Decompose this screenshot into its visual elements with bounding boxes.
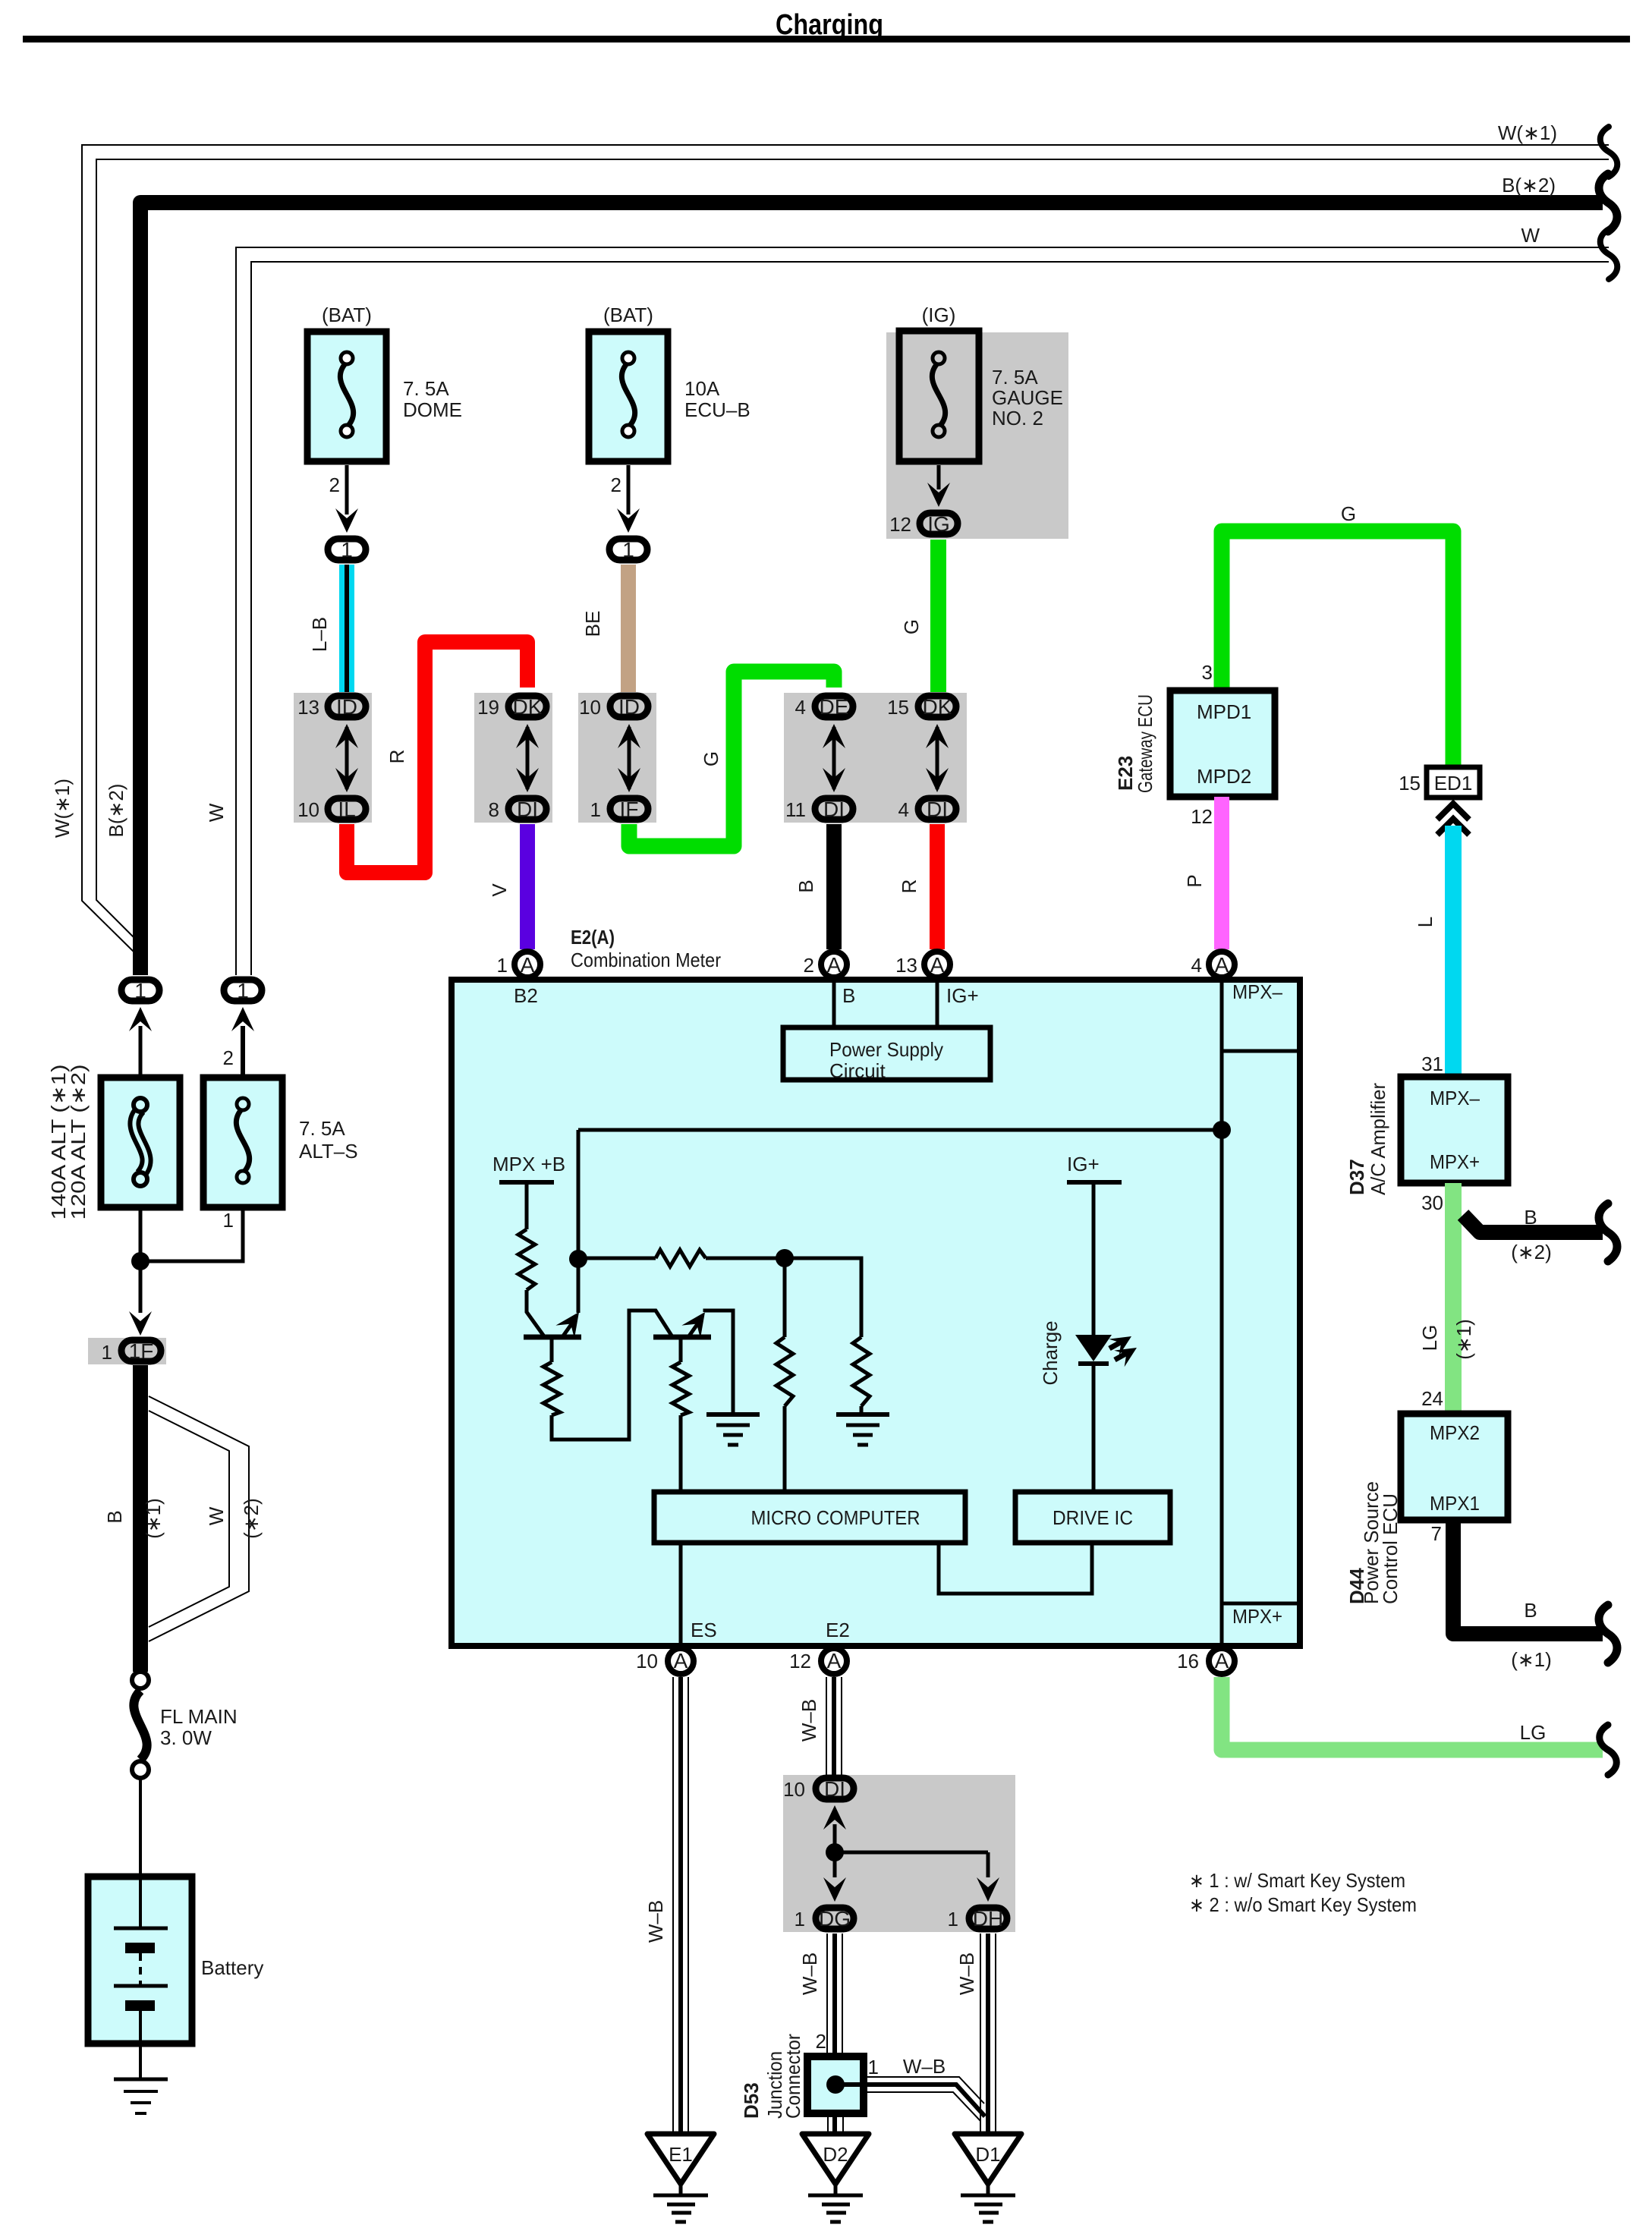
junction dot on MPX- bbox=[1213, 1121, 1231, 1139]
connector 1 (dome) bbox=[328, 539, 366, 560]
svg-text:LG: LG bbox=[1418, 1325, 1441, 1352]
svg-text:1: 1 bbox=[795, 1908, 805, 1930]
wire W-B D53 to D2 bbox=[827, 2113, 829, 2134]
svg-text:B(∗2): B(∗2) bbox=[1502, 174, 1556, 197]
wire W(*1) outline top bbox=[82, 145, 1609, 953]
svg-text:1: 1 bbox=[134, 979, 146, 1002]
svg-text:A: A bbox=[930, 953, 945, 977]
wire horizontal to MPX- bbox=[578, 1128, 1222, 1132]
svg-text:2: 2 bbox=[329, 474, 340, 496]
svg-text:ALT–S: ALT–S bbox=[299, 1140, 358, 1163]
svg-text:4: 4 bbox=[898, 798, 909, 821]
wire W-B DG to D53 bbox=[826, 1934, 828, 2056]
svg-text:1: 1 bbox=[497, 954, 508, 977]
wire MPX- bus vertical bbox=[1220, 980, 1224, 1646]
wire W-B ES to E1 bbox=[672, 1677, 674, 2134]
connector ED1 bbox=[1427, 767, 1480, 798]
svg-text:D2: D2 bbox=[823, 2143, 848, 2166]
svg-text:IF: IF bbox=[620, 798, 639, 821]
svg-text:D1: D1 bbox=[975, 2143, 1000, 2166]
svg-text:(∗1): (∗1) bbox=[1452, 1319, 1475, 1360]
wire W outline left bbox=[236, 247, 1609, 975]
title rule bbox=[23, 36, 1630, 42]
wire B to power supply bbox=[832, 977, 836, 1027]
wire ALT fuse down bbox=[139, 1207, 143, 1313]
svg-text:1F: 1F bbox=[129, 1339, 154, 1363]
wire connector to ALT-S fuse bbox=[241, 1026, 245, 1078]
connector DG (1) bbox=[816, 1908, 854, 1929]
gray block DE/DI DK/DI bbox=[784, 693, 967, 823]
wire IG+ to power supply bbox=[936, 977, 939, 1027]
ground D2 bbox=[802, 2134, 869, 2184]
connector 1F bbox=[121, 1340, 161, 1361]
svg-text:Gateway ECU: Gateway ECU bbox=[1134, 694, 1156, 793]
svg-text:∗ 2 : w/o Smart Key System: ∗ 2 : w/o Smart Key System bbox=[1189, 1893, 1417, 1916]
wire L cyan to D37 bbox=[1445, 826, 1462, 1077]
svg-text:DI: DI bbox=[823, 798, 845, 821]
svg-text:B: B bbox=[1524, 1599, 1537, 1622]
svg-text:4: 4 bbox=[1191, 954, 1202, 977]
transistor Q1 base lead down bbox=[550, 1339, 554, 1362]
wire DOME to connector bbox=[345, 465, 349, 514]
svg-text:ED1: ED1 bbox=[1434, 772, 1473, 795]
svg-text:12: 12 bbox=[889, 513, 911, 536]
transistor Q1 base bar bbox=[524, 1335, 581, 1340]
svg-text:DI: DI bbox=[517, 798, 538, 821]
wire L-B cyan with black stripe bbox=[339, 565, 354, 692]
svg-text:B: B bbox=[842, 984, 855, 1007]
battery internals bbox=[139, 1880, 142, 1928]
svg-text:1: 1 bbox=[102, 1341, 112, 1364]
wire DI to junction bbox=[833, 1824, 837, 1852]
connector DI (4) bbox=[918, 798, 956, 820]
battery box bbox=[88, 1877, 192, 2044]
svg-text:Circuit: Circuit bbox=[829, 1059, 886, 1082]
resistor R4 bbox=[853, 1337, 870, 1406]
fusible link element bbox=[134, 1109, 146, 1175]
fuse DOME 7.5A box bbox=[307, 332, 386, 461]
LED Charge bbox=[1075, 1335, 1112, 1361]
wire B(*2) stub to break bbox=[1463, 1215, 1603, 1232]
wire GAUGE to IG connector bbox=[937, 465, 941, 489]
rail IG+ bbox=[1067, 1180, 1122, 1185]
svg-text:ID: ID bbox=[336, 695, 357, 719]
junction dot Q1 emitter node bbox=[569, 1250, 587, 1268]
svg-text:DRIVE IC: DRIVE IC bbox=[1053, 1506, 1133, 1529]
svg-text:R: R bbox=[385, 750, 408, 764]
svg-text:GAUGE: GAUGE bbox=[992, 386, 1063, 409]
svg-text:120A ALT (∗2): 120A ALT (∗2) bbox=[67, 1065, 90, 1220]
svg-text:DK: DK bbox=[513, 695, 543, 719]
resistor R2 horizontal bbox=[578, 1257, 656, 1260]
wire W-B D53 to DH line bbox=[864, 2077, 984, 2104]
connector DK (19) bbox=[526, 727, 530, 789]
svg-text:L: L bbox=[1414, 917, 1436, 927]
svg-text:ES: ES bbox=[691, 1619, 717, 1641]
svg-text:DOME: DOME bbox=[403, 398, 462, 421]
svg-text:ID: ID bbox=[618, 695, 640, 719]
ECU E23 Gateway box bbox=[1170, 691, 1275, 797]
box DRIVE IC bbox=[1015, 1492, 1170, 1543]
terminal 4 A bbox=[1209, 952, 1235, 977]
svg-text:10: 10 bbox=[636, 1650, 658, 1672]
svg-text:1: 1 bbox=[948, 1908, 958, 1930]
svg-text:MPD1: MPD1 bbox=[1197, 700, 1251, 723]
svg-text:8: 8 bbox=[489, 798, 499, 821]
node W(*1) break squiggle bbox=[1600, 127, 1618, 177]
svg-text:DE: DE bbox=[820, 695, 849, 719]
connector 1 (ecu-b) bbox=[609, 539, 647, 560]
terminal 2 A bbox=[821, 952, 847, 977]
node B(*2) break squiggle bbox=[1599, 1204, 1617, 1261]
svg-text:Connector: Connector bbox=[782, 2034, 804, 2119]
svg-text:MPX2: MPX2 bbox=[1430, 1421, 1480, 1444]
node B(*1) break squiggle bbox=[1599, 1605, 1617, 1663]
svg-text:13: 13 bbox=[297, 696, 319, 719]
ground Q2 bbox=[706, 1412, 760, 1417]
svg-text:3: 3 bbox=[1202, 661, 1213, 684]
fuse DOME element bbox=[340, 362, 353, 427]
svg-text:Control ECU: Control ECU bbox=[1379, 1493, 1402, 1604]
connector IL (10) bbox=[328, 798, 366, 820]
svg-text:B: B bbox=[1524, 1206, 1537, 1229]
resistor R1 bbox=[518, 1229, 535, 1290]
svg-text:MICRO COMPUTER: MICRO COMPUTER bbox=[751, 1506, 920, 1529]
connector ID (13) bbox=[345, 727, 349, 789]
svg-text:(∗2): (∗2) bbox=[1511, 1241, 1552, 1263]
transistor Q1 collector lead bbox=[527, 1290, 544, 1336]
LED arrows bbox=[1109, 1341, 1123, 1348]
svg-text:IG: IG bbox=[927, 512, 950, 536]
svg-text:IL: IL bbox=[338, 798, 355, 821]
svg-text:31: 31 bbox=[1421, 1053, 1443, 1075]
svg-text:(∗1): (∗1) bbox=[1511, 1648, 1552, 1671]
cell MPX- partition bbox=[1220, 980, 1224, 1051]
svg-text:A: A bbox=[674, 1649, 688, 1672]
resistor R6 bbox=[672, 1362, 689, 1415]
wire W-B DH to D1 bbox=[980, 1934, 981, 2134]
wire vertical down from horizontal bbox=[577, 1130, 581, 1313]
wire R5 to Q2 collector bbox=[552, 1311, 672, 1440]
terminal 12 A bbox=[821, 1648, 847, 1674]
svg-text:7: 7 bbox=[1431, 1522, 1442, 1545]
connector DH (1) bbox=[969, 1908, 1007, 1929]
svg-text:A: A bbox=[521, 953, 535, 977]
svg-text:1: 1 bbox=[868, 2056, 879, 2078]
wire R red DI to terminal 13 bbox=[930, 824, 945, 949]
wire to R4 bbox=[785, 1258, 861, 1337]
wire connector to ALT fuse bbox=[139, 1026, 143, 1078]
wire R6 to micro computer bbox=[679, 1415, 683, 1492]
connector ID (10) bbox=[628, 727, 631, 789]
connector DI (10) bbox=[816, 1778, 854, 1799]
wire R red stair IL to DK bbox=[347, 642, 527, 873]
transistor Q2 base lead down bbox=[679, 1339, 683, 1362]
gray block ID/IL bbox=[294, 693, 372, 823]
terminal 1 A bbox=[514, 952, 540, 977]
svg-text:(IG): (IG) bbox=[922, 304, 956, 326]
junction dot bbox=[826, 1843, 844, 1861]
svg-text:13: 13 bbox=[895, 954, 917, 977]
wire W(*2) bypass inner bbox=[149, 1411, 229, 1627]
svg-text:B2: B2 bbox=[514, 984, 538, 1007]
wire V violet DI to terminal 1 bbox=[520, 824, 535, 949]
wire LG light green D37 to D44 bbox=[1445, 1183, 1462, 1414]
svg-text:7. 5A: 7. 5A bbox=[299, 1117, 345, 1140]
wire to battery bbox=[139, 1779, 142, 1877]
connector IG bbox=[920, 513, 958, 534]
fuse GAUGE NO.2 box bbox=[899, 331, 979, 461]
connector DI (11) bbox=[815, 798, 853, 820]
connector 1 (alt main) bbox=[121, 980, 159, 1001]
svg-text:4: 4 bbox=[795, 696, 806, 719]
svg-text:G: G bbox=[900, 619, 923, 634]
ground E1 bbox=[647, 2134, 714, 2184]
fuse 7.5A ALT-S box bbox=[203, 1078, 282, 1207]
wire G green IF to DE bbox=[629, 672, 834, 846]
svg-text:Charge: Charge bbox=[1039, 1320, 1062, 1385]
node LG break squiggle bbox=[1600, 1725, 1617, 1775]
box Power Supply Circuit bbox=[783, 1027, 990, 1080]
svg-text:W(∗1): W(∗1) bbox=[1498, 121, 1557, 144]
gray strip 1F bbox=[88, 1338, 166, 1364]
svg-text:10A: 10A bbox=[684, 377, 720, 400]
svg-text:1: 1 bbox=[223, 1209, 234, 1232]
connector DE (4) bbox=[832, 727, 836, 789]
wire junction to DH bbox=[835, 1851, 988, 1855]
svg-text:3. 0W: 3. 0W bbox=[160, 1726, 212, 1749]
transistor Q1 emitter with arrow bbox=[562, 1324, 571, 1337]
svg-text:IG+: IG+ bbox=[946, 984, 979, 1007]
svg-text:G: G bbox=[1341, 502, 1356, 525]
gray block DK/DI (19/8) bbox=[474, 693, 552, 823]
svg-text:Power Supply: Power Supply bbox=[829, 1038, 943, 1061]
svg-text:(∗1): (∗1) bbox=[142, 1498, 165, 1539]
terminal 13 A bbox=[924, 952, 950, 977]
svg-text:B: B bbox=[795, 879, 817, 892]
svg-text:11: 11 bbox=[785, 798, 806, 821]
arrow into DG bbox=[833, 1852, 837, 1877]
svg-text:MPX–: MPX– bbox=[1232, 980, 1282, 1003]
cell MPX+ partition bbox=[1222, 1602, 1300, 1606]
svg-text:B(∗2): B(∗2) bbox=[105, 784, 127, 838]
fuse 140A/120A ALT box bbox=[101, 1078, 180, 1207]
svg-text:G: G bbox=[700, 751, 722, 766]
wire B thick below 1F bbox=[133, 1365, 148, 1672]
svg-text:2: 2 bbox=[804, 954, 814, 977]
wire G green gateway loop bbox=[1222, 531, 1453, 767]
svg-text:MPX1: MPX1 bbox=[1430, 1492, 1480, 1515]
fusible link FL MAIN bbox=[132, 1672, 149, 1688]
svg-text:A: A bbox=[1215, 953, 1229, 977]
svg-text:1: 1 bbox=[341, 538, 353, 562]
double chevron bbox=[1437, 804, 1469, 820]
svg-text:FL MAIN: FL MAIN bbox=[160, 1705, 238, 1728]
node B(*2) break squiggle bbox=[1599, 174, 1617, 231]
svg-text:A: A bbox=[827, 953, 842, 977]
svg-text:W: W bbox=[205, 803, 228, 822]
svg-text:15: 15 bbox=[1399, 772, 1421, 795]
svg-text:BE: BE bbox=[581, 611, 604, 637]
wire G green from IG to DK bbox=[930, 540, 946, 692]
svg-text:A: A bbox=[827, 1649, 842, 1672]
svg-text:A: A bbox=[1215, 1649, 1229, 1672]
svg-text:E1: E1 bbox=[669, 2143, 693, 2166]
svg-text:7. 5A: 7. 5A bbox=[992, 366, 1038, 389]
svg-text:IG+: IG+ bbox=[1067, 1153, 1100, 1175]
svg-text:19: 19 bbox=[477, 696, 499, 719]
wire Q2 emitter to ground bbox=[705, 1311, 733, 1414]
svg-text:10: 10 bbox=[579, 696, 601, 719]
wire B thick D44 to break bbox=[1453, 1520, 1603, 1634]
arrow into DH bbox=[986, 1852, 990, 1877]
fuse ECU-B element bbox=[621, 362, 634, 427]
svg-text:ECU–B: ECU–B bbox=[684, 398, 750, 421]
rail MPX +B bbox=[499, 1180, 554, 1185]
svg-text:W–B: W–B bbox=[798, 1953, 821, 1995]
terminal 16 A bbox=[1209, 1648, 1235, 1674]
ECU D37 A/C Amplifier box bbox=[1401, 1077, 1508, 1183]
svg-text:1: 1 bbox=[590, 798, 601, 821]
ground battery bbox=[114, 2078, 168, 2082]
svg-text:LG: LG bbox=[1520, 1721, 1547, 1744]
ECU E2(A) Combination Meter box bbox=[452, 980, 1300, 1646]
wire W outline right bbox=[251, 262, 1609, 975]
svg-text:E2: E2 bbox=[826, 1619, 850, 1641]
svg-text:V: V bbox=[488, 883, 511, 897]
svg-text:L–B: L–B bbox=[308, 617, 331, 652]
wire micro computer to drive ic bbox=[939, 1543, 1092, 1594]
terminal 10 A bbox=[668, 1648, 694, 1674]
wire W(*2) bypass outer bbox=[149, 1396, 249, 1641]
ground R4 bbox=[836, 1412, 889, 1417]
svg-text:2: 2 bbox=[611, 474, 621, 496]
svg-text:W: W bbox=[205, 1506, 228, 1525]
svg-text:Battery: Battery bbox=[201, 1956, 263, 1979]
connector DK (15) bbox=[936, 727, 939, 789]
transistor Q2 emitter with arrow bbox=[688, 1324, 697, 1337]
svg-text:24: 24 bbox=[1421, 1387, 1443, 1410]
svg-text:12: 12 bbox=[1191, 805, 1213, 828]
fuse GAUGE element bbox=[932, 362, 945, 427]
resistor R3 bbox=[783, 1258, 787, 1337]
svg-text:(BAT): (BAT) bbox=[322, 304, 372, 326]
svg-text:B: B bbox=[103, 1510, 126, 1523]
svg-text:W–B: W–B bbox=[903, 2055, 946, 2078]
transistor Q2 base bar bbox=[653, 1335, 711, 1340]
arrow into 1F bbox=[129, 1311, 152, 1336]
svg-text:Combination Meter: Combination Meter bbox=[571, 949, 721, 971]
resistor R5 bbox=[543, 1362, 560, 1415]
svg-text:2: 2 bbox=[223, 1046, 234, 1069]
svg-text:1: 1 bbox=[622, 538, 634, 562]
svg-text:D53: D53 bbox=[740, 2082, 763, 2119]
wire LG from MPX+ terminal to break bbox=[1222, 1677, 1603, 1750]
svg-text:1: 1 bbox=[237, 979, 249, 1002]
ground D1 bbox=[955, 2134, 1021, 2184]
svg-text:10: 10 bbox=[783, 1778, 805, 1801]
node W break squiggle bbox=[1600, 229, 1618, 279]
svg-text:DI: DI bbox=[824, 1777, 845, 1801]
wire B black DI to terminal 2 bbox=[826, 824, 842, 949]
svg-text:MPX–: MPX– bbox=[1430, 1087, 1480, 1109]
gray block GAUGE fuse bbox=[886, 332, 1068, 539]
svg-text:DI: DI bbox=[927, 798, 948, 821]
wire ECU-B to connector bbox=[627, 465, 631, 514]
wire ALT-S to junction bbox=[140, 1207, 243, 1261]
svg-text:2: 2 bbox=[816, 2030, 826, 2053]
svg-text:E2(A): E2(A) bbox=[571, 926, 615, 949]
svg-text:16: 16 bbox=[1177, 1650, 1199, 1672]
svg-text:W–B: W–B bbox=[644, 1900, 667, 1943]
svg-text:A/C Amplifier: A/C Amplifier bbox=[1367, 1083, 1389, 1195]
svg-text:DK: DK bbox=[923, 695, 952, 719]
svg-text:30: 30 bbox=[1421, 1191, 1443, 1214]
svg-text:MPX+: MPX+ bbox=[1430, 1150, 1480, 1173]
svg-text:15: 15 bbox=[887, 696, 909, 719]
svg-text:DG: DG bbox=[819, 1907, 851, 1930]
svg-text:12: 12 bbox=[789, 1650, 811, 1672]
fuse ALT-S element bbox=[236, 1108, 249, 1173]
wire ES from micro computer bbox=[679, 1543, 683, 1646]
connector IF (1) bbox=[610, 798, 648, 820]
gray block DI/DG/DH bbox=[783, 1775, 1015, 1932]
svg-text:MPX +B: MPX +B bbox=[492, 1153, 565, 1175]
svg-text:P: P bbox=[1183, 874, 1206, 887]
svg-text:(BAT): (BAT) bbox=[603, 304, 653, 326]
box MICRO COMPUTER bbox=[654, 1492, 965, 1543]
connector 1 (alt-s) bbox=[224, 980, 262, 1001]
svg-text:∗ 1 : w/ Smart Key System: ∗ 1 : w/ Smart Key System bbox=[1189, 1869, 1405, 1892]
svg-text:W–B: W–B bbox=[955, 1953, 978, 1995]
svg-text:MPD2: MPD2 bbox=[1197, 765, 1251, 788]
svg-text:DH: DH bbox=[973, 1907, 1003, 1930]
svg-text:W–B: W–B bbox=[798, 1699, 820, 1742]
connector DI (8) bbox=[508, 798, 546, 820]
fuse ECU-B 10A box bbox=[589, 332, 668, 461]
junction dot bbox=[131, 1252, 149, 1270]
wire BE beige bbox=[621, 565, 636, 692]
gray block ID/IF (10/1) bbox=[578, 693, 656, 823]
svg-text:NO. 2: NO. 2 bbox=[992, 407, 1043, 430]
wire W-B E2 to DI bbox=[826, 1677, 827, 1775]
wire B(*2) thick bbox=[140, 203, 1603, 975]
svg-text:R: R bbox=[898, 879, 920, 894]
wire P pink MPD2 to terminal 4 bbox=[1214, 797, 1229, 949]
svg-text:W: W bbox=[1521, 224, 1540, 247]
svg-text:D37: D37 bbox=[1345, 1159, 1368, 1195]
connector D53 junction box bbox=[807, 2056, 864, 2113]
svg-text:W(∗1): W(∗1) bbox=[51, 779, 74, 838]
ECU D44 Power Source Control box bbox=[1401, 1414, 1508, 1520]
svg-text:MPX+: MPX+ bbox=[1232, 1605, 1282, 1628]
svg-text:7. 5A: 7. 5A bbox=[403, 377, 449, 400]
wire W(*1) outline bottom bbox=[96, 159, 1609, 949]
junction dot R2 right bbox=[776, 1249, 794, 1267]
svg-text:10: 10 bbox=[297, 798, 319, 821]
svg-text:(∗2): (∗2) bbox=[240, 1498, 263, 1539]
